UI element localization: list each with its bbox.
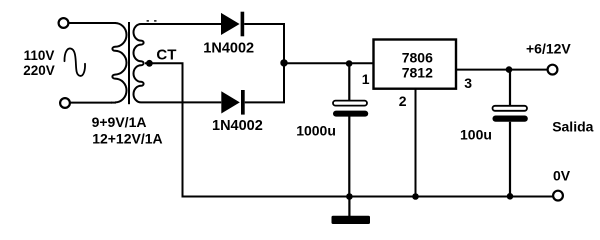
diode D2 1N4002 triangle: [221, 91, 240, 113]
wire primary top stub: [111, 22, 116, 24]
terminal +6/12V output: [548, 65, 558, 75]
ground bar: [332, 216, 371, 224]
capacitor C1 1000u top lead: [348, 63, 350, 101]
svg-text:7812: 7812: [402, 65, 433, 81]
diode D1 1N4002 triangle: [221, 13, 240, 35]
svg-text:1N4002: 1N4002: [212, 118, 263, 134]
wire rectifier node to regulator pin 1: [284, 62, 374, 64]
node output junction: [506, 66, 513, 73]
svg-text:100u: 100u: [460, 126, 492, 142]
wire center tap: [145, 63, 183, 196]
svg-text:+6/12V: +6/12V: [526, 41, 571, 57]
capacitor C2 positive plate: [493, 106, 528, 111]
wire secondary bottom to diode D2: [141, 101, 221, 103]
terminal bottom-left input: [60, 98, 70, 108]
transformer T1 primary winding: [112, 23, 126, 102]
wire regulator pin 2 to ground rail: [415, 89, 417, 197]
wire regulator pin 3 to output: [456, 69, 547, 71]
wire D1 cathode to rectifier node: [244, 24, 284, 102]
svg-text:1: 1: [362, 71, 370, 87]
svg-text:3: 3: [464, 75, 472, 91]
node pin 2 ground junction: [412, 193, 419, 200]
capacitor C2 100u top lead: [509, 70, 511, 107]
svg-text:CT: CT: [156, 47, 176, 64]
capacitor C1 bottom lead: [348, 117, 350, 197]
capacitor C2 bottom lead: [509, 122, 511, 197]
wire top-left terminal to primary: [69, 22, 112, 24]
capacitor C2 negative plate: [493, 116, 528, 122]
svg-text:1000u: 1000u: [296, 122, 336, 138]
svg-text:1N4002: 1N4002: [203, 40, 254, 56]
wire secondary top to diode D1: [141, 23, 221, 25]
transformer T1 secondary winding: [133, 24, 143, 102]
svg-text:2: 2: [399, 93, 407, 109]
capacitor C1 positive plate: [333, 101, 367, 106]
ground stub: [348, 197, 350, 217]
wire ground rail: [182, 196, 554, 198]
wire primary bottom stub: [111, 102, 116, 104]
svg-text:220V: 220V: [23, 63, 55, 78]
node ground rail junction: [346, 193, 353, 200]
svg-text:Salida: Salida: [552, 119, 593, 135]
diode D2 cathode bar: [241, 90, 245, 115]
regulator U1 box: [374, 40, 457, 89]
svg-text:9+9V/1A: 9+9V/1A: [92, 114, 147, 130]
transformer T1 core: [128, 22, 130, 104]
node 100u bottom junction: [507, 193, 514, 200]
node 1000u top junction: [346, 60, 353, 67]
node rectifier output junction: [280, 59, 287, 66]
diode D1 cathode bar: [241, 12, 245, 37]
svg-text:12+12V/1A: 12+12V/1A: [92, 131, 162, 147]
svg-text:0V: 0V: [553, 168, 571, 184]
capacitor C1 negative plate: [333, 111, 368, 117]
AC sine symbol: [64, 48, 85, 75]
node CT junction dot: [146, 60, 153, 67]
terminal top-left input: [59, 18, 69, 28]
artifact dashes above secondary: [147, 20, 149, 21]
svg-text:7806: 7806: [402, 50, 433, 66]
svg-text:110V: 110V: [24, 48, 55, 63]
terminal 0V output: [553, 191, 563, 201]
wire bottom-left terminal to primary: [70, 102, 112, 104]
